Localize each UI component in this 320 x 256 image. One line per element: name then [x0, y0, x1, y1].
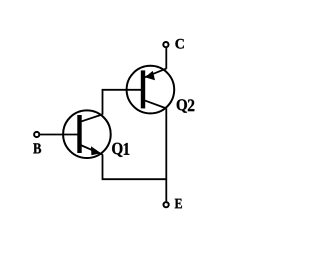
terminal C [163, 42, 168, 47]
label C [175, 39, 183, 49]
transistor Q2 [127, 66, 175, 114]
terminal B [34, 132, 39, 137]
transistor Q1 [63, 110, 111, 158]
terminal E [164, 202, 169, 207]
wire Q2 collector down to E terminal [165, 108, 167, 201]
label E [175, 199, 182, 209]
wire Q1 emitter down and right to E node [103, 154, 167, 179]
wire B to Q1 base [39, 134, 82, 136]
wire Q1 collector up and right to Q2 base [103, 90, 144, 115]
label Q2 [177, 99, 195, 113]
wire Q2 emitter up to C terminal [165, 48, 167, 69]
label Q1 [112, 143, 129, 157]
label B [33, 143, 41, 153]
